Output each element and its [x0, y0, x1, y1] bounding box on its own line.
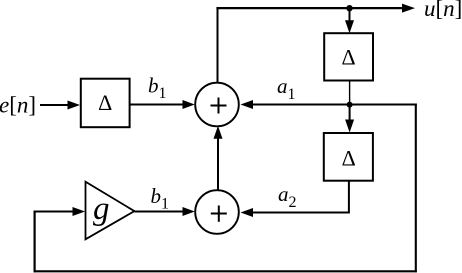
junction dot (node a1) [347, 102, 353, 108]
gain triangle g [86, 182, 135, 240]
svg-text:e[n]: e[n] [0, 93, 36, 118]
junction dot (output node) [346, 5, 352, 11]
svg-text:Δ: Δ [98, 90, 112, 115]
output wire to u[n] [216, 4, 415, 13]
summer S1 [195, 83, 239, 127]
delay box Δ (second feedback delay) [324, 133, 373, 181]
wire: feedback into gain g [34, 207, 85, 216]
wire: node a1 right to feedback drop [350, 104, 417, 106]
wire a2: second delay down and left into summer S2 [241, 181, 349, 217]
wire: bottom feedback run [34, 270, 417, 272]
wire: node a1 down into second feedback delay [345, 105, 354, 133]
wire: summer S2 output up into summer S1 [214, 126, 223, 191]
delay box Δ (first feedback delay) [324, 33, 373, 80]
wire: output node down into first feedback delay [345, 8, 354, 33]
delay box Δ (feedforward path) [81, 79, 130, 128]
summer S2 [195, 190, 239, 234]
wire: left feedback rise [33, 211, 35, 273]
wire: e[n] into delay box [40, 101, 80, 110]
wire: first delay output down to node a1 [349, 81, 351, 105]
wire: far right vertical feedback [415, 104, 417, 273]
svg-text:g: g [93, 191, 110, 227]
wire a1: node to summer S1 [241, 100, 350, 109]
wire: gain to summer S2 [135, 207, 195, 216]
svg-text:Δ: Δ [342, 44, 356, 69]
wire: summer S1 up to output line [217, 9, 219, 83]
svg-text:u[n]: u[n] [424, 0, 462, 21]
wire: delay box to summer S1 [130, 100, 195, 109]
svg-text:Δ: Δ [342, 145, 356, 170]
